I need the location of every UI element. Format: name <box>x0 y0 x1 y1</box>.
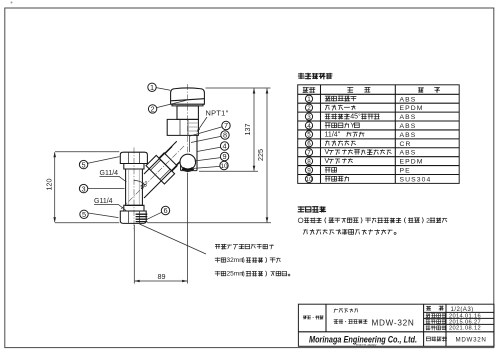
Y-pipe bottom plate <box>181 170 197 172</box>
bottom thread collar <box>124 205 144 211</box>
svg-text:8: 8 <box>307 158 311 165</box>
svg-text:5: 5 <box>82 160 86 169</box>
ext line y171 <box>199 170 258 172</box>
svg-text:2: 2 <box>426 217 430 224</box>
label 6 <box>146 212 162 220</box>
svg-text:25mm: 25mm <box>227 271 246 278</box>
svg-text:Y: Y <box>350 123 355 130</box>
dim 137 line <box>253 89 255 171</box>
svg-text:120: 120 <box>45 179 54 191</box>
dim 120 line <box>54 152 56 222</box>
svg-text:7: 7 <box>307 149 311 156</box>
paper speck <box>11 2 13 4</box>
svg-text:11/4": 11/4" <box>325 131 341 138</box>
svg-text:5: 5 <box>82 210 86 219</box>
rev2 label <box>426 326 446 330</box>
svg-text:2015.06.27: 2015.06.27 <box>449 319 481 325</box>
top thread collar <box>124 164 144 170</box>
svg-text:1: 1 <box>307 96 311 103</box>
svg-text:CR: CR <box>400 141 412 148</box>
svg-text:225: 225 <box>256 149 265 161</box>
ext line top <box>206 87 271 89</box>
note line 1 <box>215 244 273 249</box>
left pipe centerline <box>133 148 135 232</box>
float weight (10) <box>183 168 194 170</box>
svg-text:32mm: 32mm <box>227 257 246 264</box>
materials table rows <box>305 95 312 102</box>
label 5 top <box>88 157 120 164</box>
svg-text:89: 89 <box>158 272 166 281</box>
svg-text:1: 1 <box>150 83 154 92</box>
svg-text:3: 3 <box>82 184 86 193</box>
diagonal branch centerline <box>121 145 185 209</box>
title block grid <box>298 304 494 346</box>
svg-text:EPDM: EPDM <box>400 159 424 166</box>
svg-text:V: V <box>325 158 330 165</box>
dwg no label <box>426 337 446 341</box>
svg-text:1/2(A3): 1/2(A3) <box>451 306 474 313</box>
bottom hex nut (5) <box>120 211 146 223</box>
label 5 bottom <box>88 213 118 218</box>
svg-text:6: 6 <box>307 141 311 148</box>
Y-pipe tube right wall (4) <box>196 135 198 170</box>
svg-text:137: 137 <box>243 123 252 135</box>
ext line 89 left <box>133 225 135 284</box>
dim 225 line <box>266 89 268 223</box>
svg-text:TOKYO JAPAN: TOKYO JAPAN <box>356 343 378 347</box>
label 4 <box>197 147 220 151</box>
socket block <box>167 119 198 135</box>
label 10 <box>192 166 220 168</box>
notes title <box>298 207 325 213</box>
svg-text:9: 9 <box>223 152 227 161</box>
svg-text:V: V <box>325 149 330 156</box>
float ball (9) <box>180 154 196 170</box>
product name 1 <box>334 309 358 313</box>
svg-text:45°: 45° <box>350 113 361 121</box>
label 8 <box>191 136 221 142</box>
svg-text:MDW-32N: MDW-32N <box>372 319 415 328</box>
Y-pipe tube left wall <box>180 159 182 171</box>
svg-text:2: 2 <box>307 105 311 112</box>
label 3 <box>88 187 125 189</box>
created label <box>426 314 446 318</box>
pipe body <box>126 169 143 205</box>
svg-text:ABS: ABS <box>400 114 417 121</box>
note line 3 <box>215 271 286 276</box>
materials table grid <box>298 85 460 184</box>
notes line 1 <box>304 218 446 223</box>
top hex nut (5) <box>120 152 147 163</box>
svg-text:G11/4: G11/4 <box>94 198 113 205</box>
rubber ring stripes (6) <box>136 214 148 221</box>
svg-text:PE: PE <box>400 168 411 175</box>
ext line 89 right <box>187 173 189 284</box>
rev1 label <box>426 319 446 323</box>
svg-text:3: 3 <box>307 114 311 121</box>
notes line 2 <box>304 229 393 234</box>
scale label <box>426 306 431 310</box>
note line 2 <box>215 257 280 262</box>
svg-text:10: 10 <box>220 163 228 170</box>
label 7 <box>190 127 222 136</box>
valve neck <box>177 106 198 120</box>
svg-text:SUS304: SUS304 <box>400 176 432 183</box>
svg-text:8: 8 <box>223 131 227 140</box>
valve cap (1) <box>171 88 205 104</box>
svg-text:G11/4: G11/4 <box>100 170 119 177</box>
label 1 <box>156 88 170 91</box>
product name 2 <box>334 320 367 324</box>
svg-text:2021.08.12: 2021.08.12 <box>449 326 481 332</box>
note leader <box>140 224 207 254</box>
svg-text:6: 6 <box>163 206 167 215</box>
45 deg arc <box>134 180 145 184</box>
svg-text:ABS: ABS <box>400 150 417 157</box>
svg-text:ABS: ABS <box>400 132 417 139</box>
cap seal line (2) <box>171 99 204 106</box>
svg-text:10: 10 <box>306 177 312 183</box>
dim 120 extension lines <box>55 152 119 223</box>
materials table title <box>298 73 331 79</box>
svg-text:2: 2 <box>151 105 155 114</box>
svg-text:4: 4 <box>307 123 311 130</box>
label 9 <box>195 158 221 161</box>
valve centerline <box>187 84 189 172</box>
svg-text:NPT1″: NPT1″ <box>206 109 229 118</box>
svg-text:ABS: ABS <box>400 123 417 130</box>
hinmei label <box>303 316 323 319</box>
ext line y222.8 <box>147 222 271 224</box>
svg-text:MDW32N: MDW32N <box>456 337 487 344</box>
label 2 <box>157 100 189 108</box>
svg-text:EPDM: EPDM <box>400 105 424 112</box>
dim 89 line <box>135 280 187 282</box>
materials table header <box>303 87 315 92</box>
svg-text:ABS: ABS <box>400 96 417 103</box>
svg-text:9: 9 <box>307 167 311 174</box>
svg-text:5: 5 <box>307 132 311 139</box>
svg-text:4: 4 <box>223 142 227 151</box>
svg-text:7: 7 <box>224 121 228 130</box>
diagonal branch assembly <box>129 138 192 201</box>
